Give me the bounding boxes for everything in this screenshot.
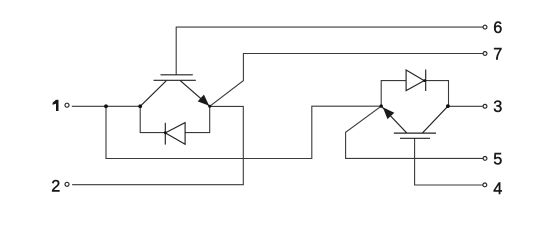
svg-text:4: 4	[493, 180, 502, 198]
svg-text:2: 2	[51, 178, 60, 196]
svg-text:6: 6	[493, 19, 502, 37]
svg-text:5: 5	[493, 151, 502, 169]
svg-text:3: 3	[493, 98, 502, 116]
svg-text:7: 7	[493, 46, 502, 64]
